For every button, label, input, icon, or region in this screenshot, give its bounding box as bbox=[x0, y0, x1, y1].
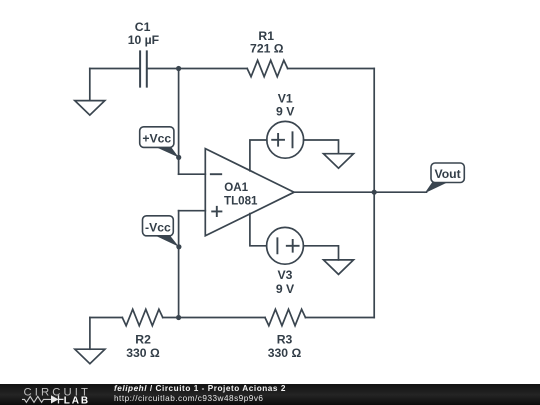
svg-text:9 V: 9 V bbox=[276, 282, 295, 296]
voltage source V1 minus bar bbox=[292, 132, 294, 147]
junction node at bottom rail bbox=[176, 315, 181, 320]
wire bottom rail left bbox=[90, 317, 122, 319]
svg-text:9 V: 9 V bbox=[276, 105, 295, 119]
wire inverting input horizontal bbox=[179, 173, 206, 175]
op-amp plus input symbol bbox=[212, 207, 221, 216]
wire inverting input vertical bbox=[178, 69, 180, 175]
svg-text:LAB: LAB bbox=[64, 395, 90, 405]
wire non-inverting input horizontal bbox=[179, 210, 206, 212]
wire bottom rail middle bbox=[163, 317, 265, 319]
voltage source V1 circle bbox=[267, 121, 304, 158]
svg-text:TL081: TL081 bbox=[224, 194, 258, 207]
op-amp minus input symbol bbox=[211, 173, 221, 175]
resistor R1 body bbox=[247, 60, 287, 76]
wire top rail left of C1 bbox=[90, 68, 140, 70]
wire ground stub top left bbox=[89, 69, 91, 101]
resistor R3 body bbox=[265, 309, 305, 325]
svg-text:330 Ω: 330 Ω bbox=[268, 346, 302, 360]
wire output bbox=[294, 191, 426, 193]
wire op-amp V+ to V1 bbox=[250, 140, 267, 171]
op-amp OA1 triangle bbox=[205, 149, 294, 236]
CircuitLab logo bbox=[22, 384, 112, 405]
node -Vcc flag bbox=[143, 216, 182, 250]
credit text bbox=[114, 384, 286, 405]
svg-text:-Vcc: -Vcc bbox=[145, 220, 171, 234]
svg-text:V1: V1 bbox=[278, 92, 293, 106]
node Vout flag bbox=[425, 163, 465, 193]
svg-text:R3: R3 bbox=[277, 332, 293, 346]
voltage source V3 circle bbox=[267, 227, 304, 264]
node +Vcc flag bbox=[140, 127, 182, 160]
wire bottom rail right bbox=[305, 317, 374, 319]
svg-text:721 Ω: 721 Ω bbox=[250, 42, 284, 56]
ground G1 top left bbox=[75, 101, 105, 116]
voltage source V1 plus sign bbox=[272, 134, 284, 146]
wire top rail R1 to corner bbox=[288, 68, 375, 70]
junction node at C1 / inverting branch bbox=[176, 66, 181, 71]
svg-text:OA1: OA1 bbox=[224, 181, 248, 194]
svg-text:C1: C1 bbox=[135, 20, 151, 34]
capacitor C1 plates bbox=[140, 51, 147, 86]
ground G4 bottom left bbox=[75, 349, 105, 364]
footer bar bbox=[0, 384, 540, 405]
svg-text:R2: R2 bbox=[135, 332, 151, 346]
svg-text:V3: V3 bbox=[278, 268, 293, 282]
wire V1 to ground bbox=[304, 140, 339, 154]
voltage source V3 minus bar bbox=[276, 238, 278, 253]
voltage source V3 plus sign bbox=[287, 240, 299, 252]
wire top rail C1 to R1 bbox=[148, 68, 248, 70]
ground G3 at V3 bbox=[324, 260, 354, 275]
wire V3 to ground bbox=[303, 246, 338, 260]
ground G2 at V1 bbox=[324, 154, 354, 169]
wire non-inverting vertical bbox=[178, 211, 180, 318]
wire ground stub bottom left bbox=[89, 318, 91, 350]
resistor R2 body bbox=[122, 309, 162, 325]
svg-text:Vout: Vout bbox=[435, 167, 461, 181]
svg-text:10 µF: 10 µF bbox=[128, 33, 159, 47]
wire op-amp V- to V3 bbox=[250, 214, 267, 246]
svg-text:+Vcc: +Vcc bbox=[142, 132, 171, 146]
svg-text:330 Ω: 330 Ω bbox=[126, 346, 160, 360]
wire right vertical bbox=[373, 69, 375, 318]
junction node at output bbox=[372, 190, 377, 195]
